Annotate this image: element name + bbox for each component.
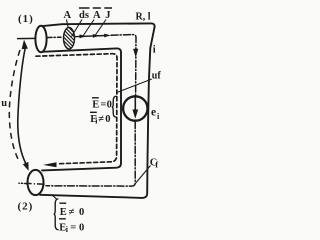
svg-text:E: E — [92, 100, 99, 111]
svg-text:0: 0 — [79, 222, 84, 233]
svg-text:0: 0 — [107, 100, 112, 111]
svg-text:E: E — [60, 207, 67, 218]
svg-text:uf: uf — [152, 70, 162, 81]
svg-text:≠: ≠ — [98, 114, 104, 125]
svg-text:=: = — [100, 100, 106, 111]
svg-text:(1): (1) — [18, 13, 34, 25]
svg-text:e: e — [151, 107, 156, 119]
svg-text:=: = — [70, 222, 76, 233]
svg-text:A: A — [93, 10, 101, 21]
svg-text:i: i — [153, 44, 156, 55]
svg-text:J: J — [105, 10, 110, 21]
svg-text:A: A — [64, 10, 72, 21]
svg-text:0: 0 — [79, 207, 84, 218]
svg-text:ds: ds — [79, 10, 89, 21]
svg-text:f: f — [155, 160, 158, 170]
svg-text:0: 0 — [105, 114, 110, 125]
svg-text:u: u — [1, 98, 7, 109]
svg-text:(2): (2) — [18, 200, 34, 212]
svg-text:≠: ≠ — [69, 207, 75, 218]
svg-text:R, l: R, l — [136, 12, 151, 23]
